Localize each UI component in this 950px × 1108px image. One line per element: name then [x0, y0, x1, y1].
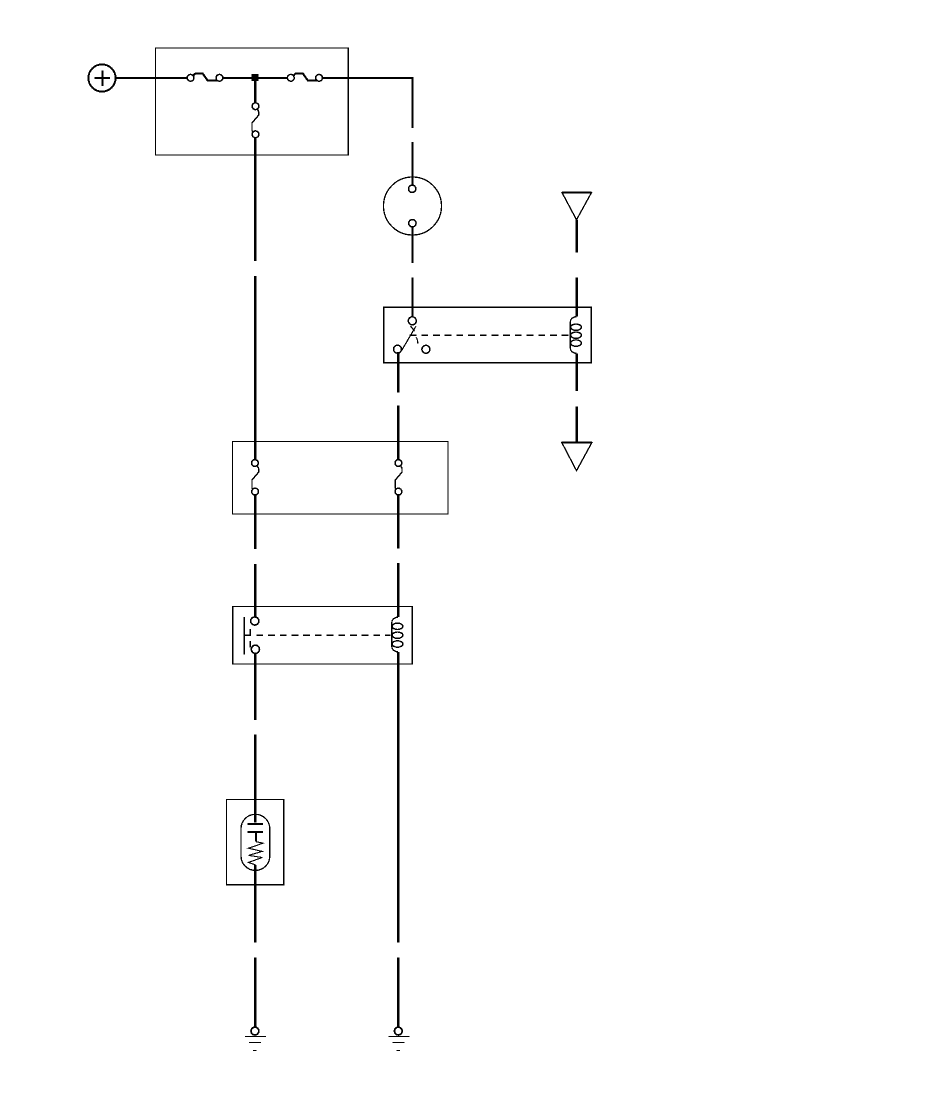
fuse F2: [287, 73, 322, 81]
wire F5 down to break: [397, 495, 399, 548]
wire F4 down to break: [254, 495, 256, 549]
wire connector down to break: [411, 227, 413, 263]
junction node (solid square): [252, 74, 259, 81]
bulb envelope: [241, 814, 270, 870]
wire (after gap) into junction box: [397, 406, 399, 460]
connector pin 1: [409, 185, 416, 192]
relay U1 coil: [570, 317, 581, 354]
wire (after gap) into relay U2 switch: [254, 564, 256, 617]
junction / fuse interconnection box: [233, 441, 449, 514]
wire F3 down to connector break: [254, 138, 256, 261]
wire junction to fuse F2: [255, 77, 287, 79]
wire bulb down to break: [254, 865, 256, 943]
fuse F3 (vertical, below junction): [252, 81, 259, 138]
relay U1 dashed actuator link: [410, 334, 570, 336]
wire (after gap) down to junction box: [254, 276, 256, 460]
relay U1 box: [384, 307, 592, 363]
fuse box: [156, 48, 349, 155]
bottom triangle (to another circuit): [562, 443, 593, 471]
left ground G1: [245, 1027, 266, 1050]
battery positive terminal: [88, 64, 115, 91]
relay U2 coil: [392, 617, 403, 652]
wire F1 to junction: [223, 77, 255, 79]
wire relay U2 coil down to break: [397, 652, 399, 943]
wire (after gap) into relay U1: [411, 278, 413, 317]
wire battery to fuse F1: [116, 77, 188, 79]
wire from top triangle into relay U1 coil: [576, 220, 578, 253]
bulb component box: [226, 799, 283, 884]
connector pin 2: [409, 220, 416, 227]
round 2-pin connector: [384, 177, 442, 235]
relay U2 switch (plunger contact): [244, 617, 259, 655]
fuse F5 (right, in junction box): [395, 460, 402, 495]
wire relay U1 coil down to break: [576, 354, 578, 392]
wire (after gap) to right ground: [397, 958, 399, 1028]
bulb electrodes: [248, 824, 264, 842]
wire (after gap) into bulb: [254, 735, 256, 823]
wire relay U2 switch down to break: [254, 654, 256, 720]
right ground G2: [388, 1027, 409, 1050]
fuse F1: [187, 73, 223, 81]
relay U2 dashed actuator link: [256, 634, 390, 636]
relay U2 box: [233, 607, 412, 664]
wire (after gap) into relay U2 coil: [397, 563, 399, 617]
wire (after gap) to bottom triangle: [576, 407, 578, 443]
fuse F4 (left, in junction box): [252, 460, 259, 495]
relay U1 switch: [394, 317, 430, 354]
top triangle (to another circuit): [562, 193, 592, 220]
wire segment above round connector: [411, 142, 413, 185]
wire (after gap) to left ground: [254, 958, 256, 1027]
bulb filament (zigzag): [248, 842, 263, 865]
wire relay U1 switch output down to break: [397, 352, 399, 393]
wire F2 to corner then down to connector: [323, 78, 413, 128]
